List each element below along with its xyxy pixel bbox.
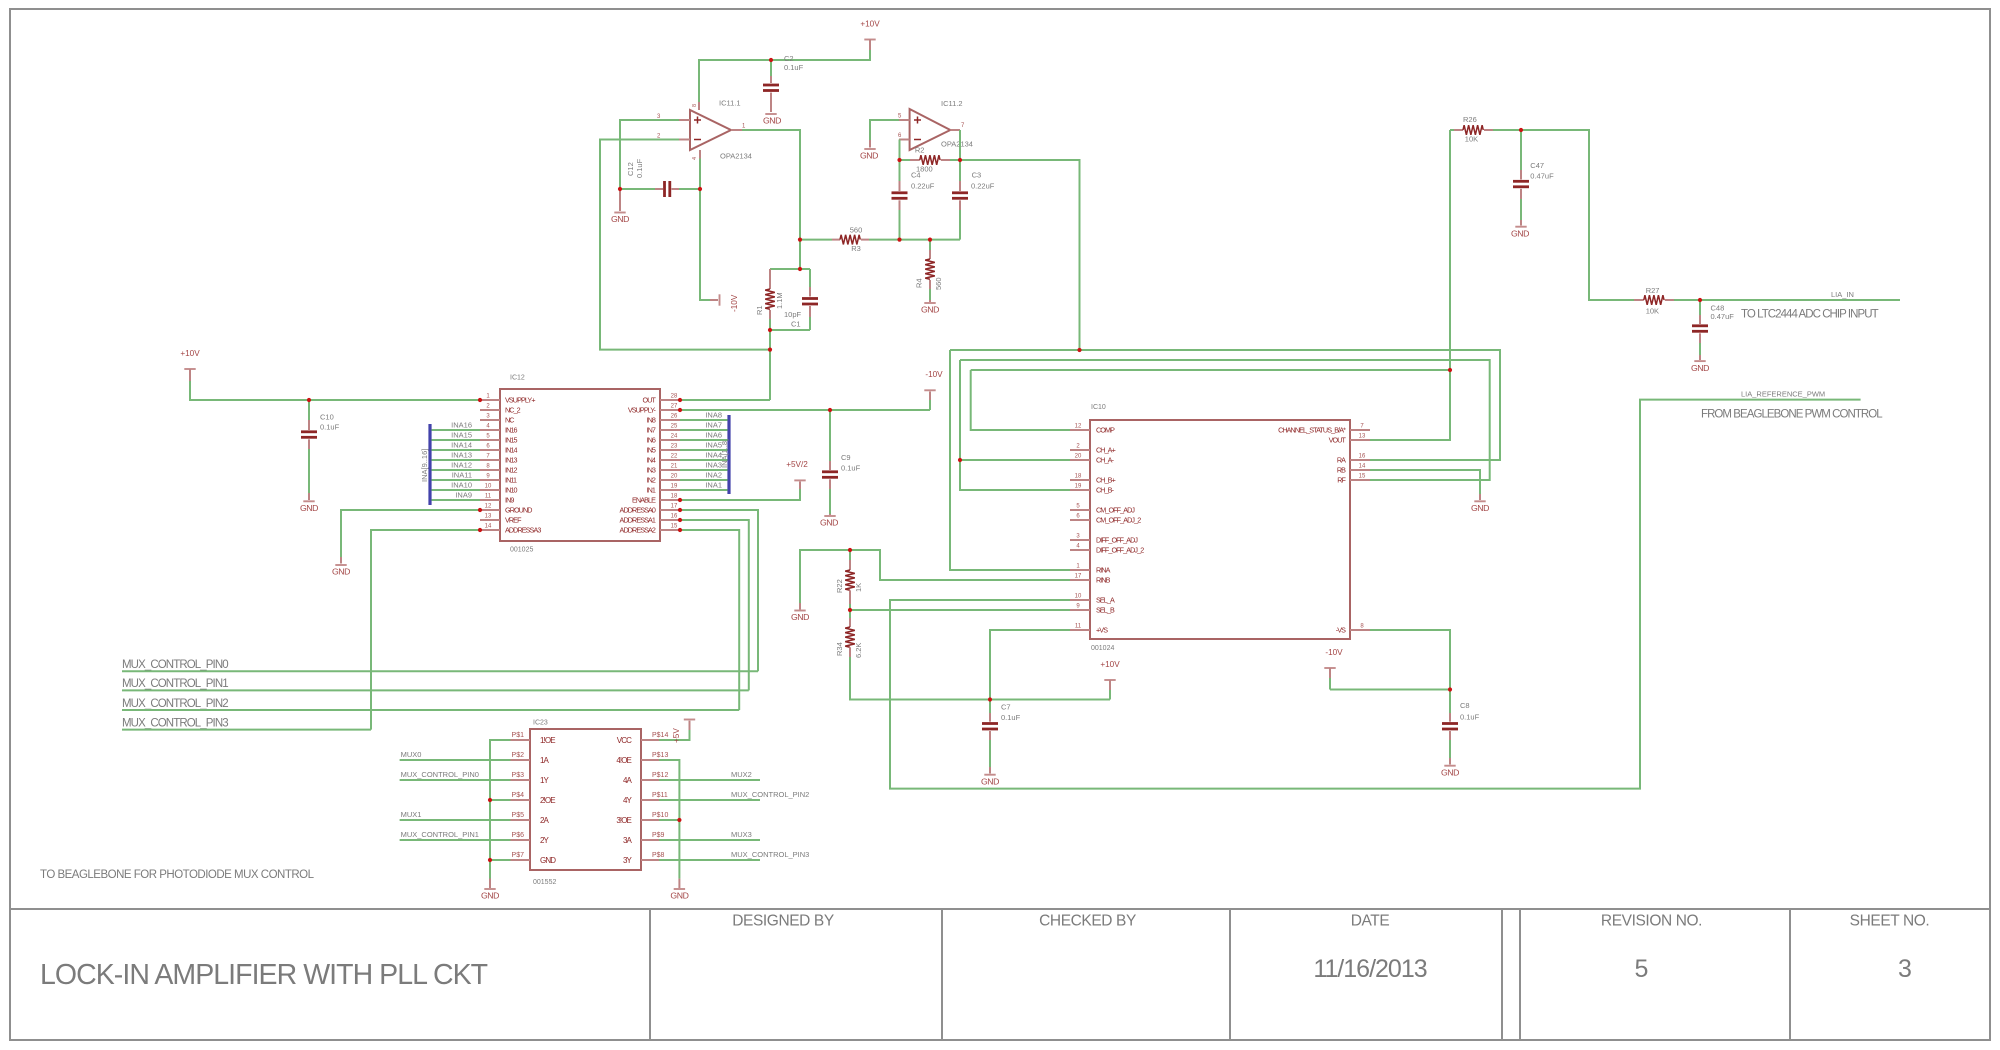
bus INA9..16 left (428, 424, 431, 505)
svg-text:RA: RA (1337, 456, 1346, 465)
svg-text:560: 560 (934, 277, 943, 290)
svg-text:DIFF_OFF_ADJ: DIFF_OFF_ADJ (1096, 536, 1138, 545)
svg-text:P$8: P$8 (652, 852, 665, 859)
net labels INA16..INA9 (451, 421, 472, 500)
svg-text:INA2: INA2 (705, 471, 722, 480)
svg-text:0.1uF: 0.1uF (1001, 713, 1021, 722)
svg-text:26: 26 (671, 414, 678, 420)
wire R3 to C4/R4/C3 (869, 239, 960, 241)
wire loop y370 COMP to VOUT riser (971, 369, 1450, 371)
IC23 body (530, 729, 641, 870)
svg-text:001025: 001025 (510, 547, 533, 554)
+5V supply (672, 720, 695, 744)
svg-text:REVISION NO.: REVISION NO. (1601, 913, 1702, 930)
svg-text:ADDRESSA1: ADDRESSA1 (620, 516, 656, 525)
svg-text:INA6: INA6 (705, 431, 722, 440)
junction (680,520) (678, 518, 682, 522)
svg-text:R27: R27 (1646, 286, 1660, 295)
svg-text:MUX0: MUX0 (401, 750, 422, 759)
svg-text:INA10: INA10 (451, 481, 472, 490)
bus INA1..8 right (727, 415, 730, 494)
svg-text:15: 15 (1359, 474, 1366, 480)
svg-text:IN13: IN13 (505, 456, 517, 465)
resistor R3 (832, 226, 869, 254)
svg-text:LIA_REFERENCE_PWM: LIA_REFERENCE_PWM (1741, 390, 1825, 399)
svg-text:DATE: DATE (1351, 913, 1390, 930)
title block top border (10, 908, 1990, 910)
resistor R34 (835, 610, 863, 658)
wire MUX_CONTROL_PIN2 from P$11 (659, 799, 760, 801)
wire COMP riser (971, 370, 1070, 430)
svg-text:13: 13 (485, 514, 492, 520)
svg-text:MUX_CONTROL_PIN0: MUX_CONTROL_PIN0 (122, 659, 228, 671)
capacitor C48 (1692, 300, 1734, 355)
ground below R4 (921, 300, 939, 315)
resistor R22 (835, 550, 863, 610)
svg-text:P$12: P$12 (652, 772, 668, 779)
-10V supply near C9 (924, 370, 943, 410)
svg-text:IC11.2: IC11.2 (941, 99, 963, 108)
wire P$4 spur (490, 799, 511, 801)
svg-text:P$2: P$2 (512, 752, 525, 759)
svg-text:0.1uF: 0.1uF (1460, 713, 1480, 722)
svg-text:3!OE: 3!OE (616, 816, 631, 825)
svg-text:GND: GND (670, 891, 688, 901)
svg-text:IC11.1: IC11.1 (719, 99, 741, 108)
svg-text:ADDRESSA3: ADDRESSA3 (505, 526, 541, 535)
svg-text:P$1: P$1 (512, 732, 525, 739)
svg-text:CH_B+: CH_B+ (1096, 476, 1116, 485)
svg-text:INA16: INA16 (451, 421, 472, 430)
svg-text:0.1uF: 0.1uF (320, 423, 340, 432)
wire MUX1 to P$5 (400, 819, 511, 821)
svg-text:10: 10 (1075, 594, 1082, 600)
svg-text:-10V: -10V (1325, 648, 1343, 657)
junction (680,530) (678, 528, 682, 532)
svg-text:IC23: IC23 (533, 720, 548, 727)
svg-text:+10V: +10V (1100, 660, 1120, 669)
svg-text:12: 12 (1075, 424, 1082, 430)
junction (309,400) (307, 398, 311, 402)
svg-text:OPA2134: OPA2134 (941, 140, 973, 149)
svg-text:INA4: INA4 (705, 451, 722, 460)
capacitor C8 (1442, 690, 1480, 759)
junction (1079.5,350) (1077, 348, 1081, 352)
svg-text:GND: GND (820, 518, 838, 528)
pin stub opamp1 pin2 (679, 139, 690, 141)
svg-text:+5V: +5V (672, 728, 681, 743)
pin stub opamp1 pin3 (679, 119, 690, 121)
wire down to R1C1 (799, 240, 801, 269)
svg-text:CM_OFF_ADJ_2: CM_OFF_ADJ_2 (1096, 516, 1141, 525)
wire CH_A- branch (960, 459, 1070, 461)
svg-text:C1: C1 (791, 320, 801, 329)
wire LIA_IN (1674, 299, 1900, 301)
wire SEL_A to LIA_REFERENCE_PWM (890, 400, 1861, 789)
svg-text:IC10: IC10 (1091, 404, 1106, 411)
wire GROUND pin12 to gnd (341, 510, 480, 557)
svg-text:11/16/2013: 11/16/2013 (1313, 955, 1426, 983)
svg-text:R22: R22 (835, 579, 844, 593)
svg-text:R2: R2 (915, 146, 925, 155)
svg-text:R1: R1 (755, 305, 764, 315)
junction (680,410) (678, 408, 682, 412)
svg-text:R34: R34 (835, 642, 844, 656)
wire C12 right to pin4 net (679, 188, 700, 190)
svg-text:R3: R3 (851, 244, 861, 253)
svg-text:MUX_CONTROL_PIN2: MUX_CONTROL_PIN2 (731, 790, 809, 799)
junction (700,189) (698, 187, 702, 191)
junction (990,699.5) (988, 697, 992, 701)
junction (1521,130) (1519, 128, 1523, 132)
wire pin3 to C12 left (620, 120, 679, 189)
op-amp IC11.1 (690, 99, 752, 161)
svg-text:-10V: -10V (730, 294, 739, 312)
svg-text:LIA_IN: LIA_IN (1831, 290, 1854, 299)
svg-text:22: 22 (671, 454, 678, 460)
svg-text:R4: R4 (915, 278, 924, 288)
wire pin4 to -10V (700, 159, 710, 301)
svg-text:0.22uF: 0.22uF (911, 182, 935, 191)
op-amp IC11.2 (910, 99, 973, 150)
junction (771,60) (769, 58, 773, 62)
svg-text:+VS: +VS (1096, 626, 1108, 635)
resistor R2 (910, 146, 950, 174)
svg-text:GND: GND (1441, 767, 1459, 777)
svg-text:13: 13 (1359, 434, 1366, 440)
svg-text:ENABLE: ENABLE (632, 496, 656, 505)
ground below opamp2 pin5 (860, 140, 878, 161)
-10V supply near C8 (1324, 648, 1343, 690)
junction (480,510) (478, 508, 482, 512)
svg-text:C8: C8 (1460, 701, 1470, 710)
svg-text:DESIGNED BY: DESIGNED BY (732, 913, 834, 930)
+10V supply left (180, 349, 200, 381)
svg-text:R26: R26 (1463, 115, 1477, 124)
junction (800,269) (798, 267, 802, 271)
ground below C2 (763, 114, 781, 126)
svg-text:VREF: VREF (505, 516, 522, 525)
svg-text:1.1M: 1.1M (775, 292, 784, 309)
svg-text:18: 18 (1075, 474, 1082, 480)
svg-text:P$7: P$7 (512, 852, 525, 859)
svg-text:GND: GND (860, 151, 878, 161)
wire loop y360 CHB to RF (960, 360, 1490, 480)
wire CH_A- / CH_B- riser (960, 360, 1070, 490)
wire SEL_B to R22/R34 junction (850, 609, 1070, 611)
svg-text:INA12: INA12 (451, 461, 472, 470)
IC10 body (1090, 420, 1350, 639)
svg-text:19: 19 (1075, 484, 1082, 490)
svg-text:P$3: P$3 (512, 772, 525, 779)
svg-text:INA9: INA9 (455, 491, 472, 500)
svg-text:GND: GND (1511, 228, 1529, 238)
wires IN8..IN1 to bus (680, 420, 728, 490)
wire -10V to C8 node (1330, 689, 1450, 691)
wire ADDRESSA2 pin15 (680, 530, 739, 710)
svg-text:TO BEAGLEBONE FOR PHOTODIODE M: TO BEAGLEBONE FOR PHOTODIODE MUX CONTROL (40, 869, 315, 881)
svg-text:P$6: P$6 (512, 832, 525, 839)
wire ENABLE pin18 to +5V/2 (680, 489, 800, 500)
svg-text:18: 18 (671, 494, 678, 500)
wire MUX_CONTROL_PIN2 (122, 709, 739, 711)
ground below C7 (981, 767, 999, 786)
capacitor C3 (952, 160, 995, 240)
svg-text:INA[9..16]: INA[9..16] (420, 449, 429, 482)
svg-text:15: 15 (671, 524, 678, 530)
svg-text:24: 24 (671, 434, 678, 440)
wire R1C1 top rail (770, 268, 810, 270)
capacitor C1 (784, 269, 818, 330)
svg-text:1K: 1K (854, 583, 863, 592)
svg-text:NC: NC (505, 416, 514, 425)
capacitor C12 (626, 158, 679, 197)
svg-text:8: 8 (692, 104, 698, 107)
wire MUX_CONTROL_PIN3 (122, 729, 371, 731)
svg-text:MUX2: MUX2 (731, 770, 752, 779)
wire IC23 left common rail (490, 740, 511, 879)
wire R1 bottom (769, 319, 771, 330)
svg-text:MUX_CONTROL_PIN3: MUX_CONTROL_PIN3 (122, 717, 228, 729)
wire C2 drop (770, 60, 772, 76)
svg-text:ADDRESSA2: ADDRESSA2 (620, 526, 656, 535)
wire MUX_CONTROL_PIN1 (122, 689, 749, 691)
svg-text:28: 28 (671, 394, 678, 400)
svg-text:+10V: +10V (860, 20, 880, 29)
wire R26 to corner down to R27 (1493, 130, 1634, 300)
svg-text:10: 10 (485, 484, 492, 490)
svg-text:C47: C47 (1530, 161, 1544, 170)
svg-text:-10V: -10V (925, 370, 943, 379)
svg-text:MUX_CONTROL_PIN1: MUX_CONTROL_PIN1 (401, 830, 479, 839)
junction (680,510) (678, 508, 682, 512)
svg-text:IC12: IC12 (510, 375, 525, 382)
IC12 left pin numbers (485, 394, 492, 530)
svg-text:C4: C4 (911, 171, 921, 180)
svg-text:0.1uF: 0.1uF (784, 63, 804, 72)
junction (490,800) (488, 798, 492, 802)
svg-text:RINB: RINB (1096, 576, 1111, 585)
wire ADDRESSA0 pin17 (680, 510, 758, 671)
capacitor C9 (822, 410, 861, 514)
IC12 body (500, 389, 660, 541)
svg-text:ADDRESSA0: ADDRESSA0 (620, 506, 656, 515)
svg-text:P$9: P$9 (652, 832, 665, 839)
+5V/2 supply (786, 460, 808, 489)
wire ADDRESSA3 to MUX_CONTROL_PIN3 (371, 530, 480, 730)
svg-text:12: 12 (485, 504, 492, 510)
svg-text:GND: GND (1691, 363, 1709, 373)
junction (770,330) (768, 328, 772, 332)
resistor R1 (755, 269, 784, 319)
svg-text:VCC: VCC (617, 736, 632, 745)
wire opamp1 output down (742, 130, 800, 240)
ground below C12 (611, 189, 629, 224)
+10V supply top (860, 20, 880, 50)
svg-text:17: 17 (671, 504, 678, 510)
svg-text:16: 16 (671, 514, 678, 520)
svg-text:GND: GND (921, 305, 939, 315)
svg-text:GND: GND (332, 567, 350, 577)
svg-text:IN9: IN9 (505, 496, 514, 505)
svg-text:INA5: INA5 (705, 441, 722, 450)
svg-text:IN3: IN3 (647, 466, 656, 475)
svg-text:25: 25 (671, 424, 678, 430)
junction (850,550) (848, 548, 852, 552)
svg-text:C9: C9 (841, 453, 851, 462)
junction (679.4,820) (677, 818, 681, 822)
wire pin7 down (959, 130, 961, 160)
junction (480,530) (478, 528, 482, 532)
svg-text:INA8: INA8 (705, 411, 722, 420)
wire ADDRESSA1 pin16 (680, 520, 749, 690)
svg-text:GND: GND (763, 116, 781, 126)
svg-text:INA14: INA14 (451, 441, 472, 450)
resistor R26 (1450, 115, 1493, 144)
svg-text:GND: GND (481, 891, 499, 901)
svg-text:MUX_CONTROL_PIN3: MUX_CONTROL_PIN3 (731, 850, 809, 859)
IC23 left pin names (540, 736, 556, 865)
svg-text:0.1uF: 0.1uF (635, 158, 644, 178)
ground below C48 (1691, 355, 1709, 373)
IC12 left pin names (505, 396, 541, 535)
svg-text:P$5: P$5 (512, 812, 525, 819)
svg-text:IN5: IN5 (647, 446, 656, 455)
svg-text:IN1: IN1 (647, 486, 656, 495)
wire R2 left lead row (900, 159, 911, 161)
svg-text:560: 560 (850, 226, 863, 235)
junction (930,239.6) (928, 238, 932, 242)
junction (480,400) (478, 398, 482, 402)
svg-text:CH_A+: CH_A+ (1096, 446, 1116, 455)
svg-text:CH_B-: CH_B- (1096, 486, 1115, 495)
svg-text:10pF: 10pF (784, 310, 802, 319)
svg-text:20: 20 (1075, 454, 1082, 460)
svg-text:5: 5 (1635, 955, 1649, 983)
IC23 left pin stubs (511, 740, 531, 860)
IC10 left pin numbers (1075, 424, 1082, 630)
IC12 left pin stubs (480, 400, 500, 530)
wire +10V to C7 node (990, 699, 1110, 701)
svg-text:INA7: INA7 (705, 421, 722, 430)
svg-text:C2: C2 (784, 54, 794, 63)
svg-text:001552: 001552 (533, 879, 556, 886)
wire loop y350 RINA to RA (950, 350, 1500, 460)
svg-text:NC_2: NC_2 (505, 406, 521, 415)
svg-text:IN12: IN12 (505, 466, 517, 475)
svg-text:INA1: INA1 (705, 481, 722, 490)
svg-text:IN15: IN15 (505, 436, 517, 445)
svg-text:P$13: P$13 (652, 752, 668, 759)
wire +10V to opamp1 V+ (699, 50, 870, 102)
svg-text:IN16: IN16 (505, 426, 517, 435)
svg-text:INA15: INA15 (451, 431, 472, 440)
wire OUT pin28 (680, 399, 770, 401)
ground below C8 (1441, 758, 1459, 777)
svg-text:INA13: INA13 (451, 451, 472, 460)
wire MUX_CONTROL_PIN0 (122, 670, 758, 672)
wire R2 right to output node (950, 159, 960, 161)
wire MUX_CONTROL_PIN3 from P$8 (659, 859, 760, 861)
IC23 right pin names (616, 736, 632, 865)
svg-text:19: 19 (671, 484, 678, 490)
svg-text:INA11: INA11 (452, 471, 472, 480)
IC12 right pin numbers (671, 394, 678, 530)
svg-text:IN10: IN10 (505, 486, 517, 495)
junction (1700,300) (1698, 298, 1702, 302)
svg-text:0.47uF: 0.47uF (1711, 312, 1735, 321)
+10V supply near C7 (1100, 660, 1120, 700)
wire IC23 right rail (659, 760, 679, 879)
svg-text:+5V/2: +5V/2 (786, 460, 808, 469)
svg-text:P$11: P$11 (652, 792, 668, 799)
svg-text:4: 4 (692, 157, 698, 160)
svg-text:23: 23 (671, 444, 678, 450)
svg-text:11: 11 (1075, 624, 1082, 630)
IC23 right pin stubs (641, 740, 659, 860)
svg-text:C10: C10 (320, 413, 334, 422)
svg-text:FROM BEAGLEBONE PWM CONTROL: FROM BEAGLEBONE PWM CONTROL (1701, 409, 1883, 421)
svg-text:2!OE: 2!OE (540, 796, 555, 805)
capacitor C7 (982, 700, 1021, 768)
svg-text:MUX1: MUX1 (401, 810, 422, 819)
svg-text:+10V: +10V (180, 349, 200, 358)
title block headers (732, 913, 1929, 930)
svg-text:C7: C7 (1001, 703, 1011, 712)
junction (960,160) (958, 158, 962, 162)
svg-text:14: 14 (1359, 464, 1366, 470)
ground below RB (1471, 494, 1489, 513)
wire junction down to OUT pin wire (769, 350, 771, 400)
pin stub opamp2 pin6 (899, 139, 910, 141)
title block dividers (650, 909, 1790, 1040)
wire R1C1 bottom rail (770, 329, 810, 331)
wire R26 left vertical x1450 (1370, 130, 1450, 440)
resistor R4 (915, 240, 944, 300)
junction (490,860) (488, 858, 492, 862)
svg-text:SEL_B: SEL_B (1096, 606, 1115, 615)
pin stub opamp1 pin4 bottom (699, 150, 701, 159)
wire P$7 spur (490, 859, 511, 861)
IC23 left pin numbers (512, 732, 525, 859)
wire +10V to IC12 pin1 (190, 381, 480, 400)
wire VSUPPLY- pin27 to -10V and C9 (680, 409, 930, 411)
svg-text:CHECKED BY: CHECKED BY (1039, 913, 1136, 930)
wire pin2 feedback (600, 140, 770, 350)
junction (680,500) (678, 498, 682, 502)
svg-text:LOCK-IN AMPLIFIER WITH PLL CKT: LOCK-IN AMPLIFIER WITH PLL CKT (40, 959, 488, 991)
svg-text:10K: 10K (1465, 135, 1478, 144)
wire opamp2 pin5 to GND (870, 120, 899, 140)
wires IN16..IN9 to bus (432, 430, 481, 500)
svg-text:001024: 001024 (1091, 645, 1114, 652)
junction (800,239.6) (798, 238, 802, 242)
svg-text:VOUT: VOUT (1329, 436, 1347, 445)
IC10 right pin names (1278, 426, 1346, 635)
wire P$10 spur (659, 819, 679, 821)
svg-text:27: 27 (671, 404, 678, 410)
IC12 right pin stubs (660, 400, 680, 530)
svg-text:IN4: IN4 (647, 456, 656, 465)
wire MUX0 to P$2 (400, 759, 511, 761)
IC12 right pin names (620, 396, 657, 535)
svg-text:VSUPPLY+: VSUPPLY+ (505, 396, 535, 405)
ground on RINB net (791, 603, 809, 622)
svg-text:OPA2134: OPA2134 (720, 152, 752, 161)
wire R34 bottom to C7 node (850, 657, 990, 700)
wire MUX_CONTROL_PIN1 to P$6 (400, 839, 511, 841)
junction (770,349.6) (768, 348, 772, 352)
